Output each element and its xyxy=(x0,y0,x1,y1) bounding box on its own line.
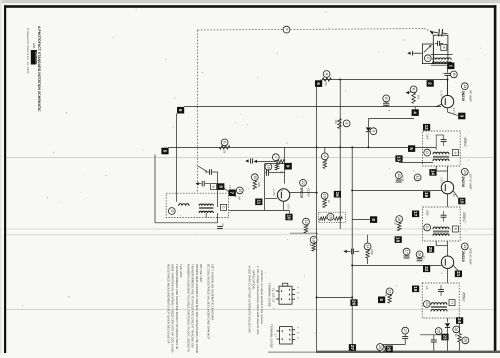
svg-text:24: 24 xyxy=(463,170,467,174)
svg-text:-1.2V: -1.2V xyxy=(440,90,444,97)
svg-text:b: b xyxy=(222,206,226,208)
svg-text:23: 23 xyxy=(443,334,448,340)
antenna boxref a xyxy=(441,44,447,50)
oscillator boxref b xyxy=(221,204,227,210)
fold line 1 xyxy=(6,156,494,158)
svg-text:11: 11 xyxy=(397,173,401,177)
svg-text:19: 19 xyxy=(323,194,327,198)
circuitrace square 7 xyxy=(229,190,236,197)
svg-text:-1.4V: -1.4V xyxy=(439,177,443,183)
oscillator coil box dashed xyxy=(166,193,228,217)
svg-text:POWER REPLACEMENT AND MAY NOT: POWER REPLACEMENT AND MAY NOT NECESSARIL… xyxy=(195,264,199,353)
circuitrace square 13 xyxy=(395,155,402,162)
circuitrace square 26 xyxy=(350,299,357,306)
notes text block xyxy=(166,264,264,354)
terminal guide 1 label xyxy=(267,283,275,307)
circled 14 resistor 220k xyxy=(364,235,374,264)
circuitrace square 10 xyxy=(285,214,292,221)
fold line 2 xyxy=(6,228,494,230)
wire box bottom y223 xyxy=(155,222,218,224)
circuitrace square 6 xyxy=(177,107,184,114)
svg-text:5: 5 xyxy=(163,150,168,153)
svg-text:4: 4 xyxy=(274,156,278,158)
svg-text:-.02V: -.02V xyxy=(286,203,290,209)
antenna trimmer arrow xyxy=(424,45,432,52)
detector diode xyxy=(445,323,450,335)
svg-text:18: 18 xyxy=(418,252,422,256)
wire AVC bus y79 xyxy=(322,79,447,81)
svg-text:25: 25 xyxy=(437,329,441,333)
svg-text:G: G xyxy=(170,210,174,213)
svg-text:● SEE PARTS LIST FOR ALTERNATE: ● SEE PARTS LIST FOR ALTERNATE VALUES OR xyxy=(247,266,251,333)
svg-text:17: 17 xyxy=(405,250,409,254)
IF2 label xyxy=(426,210,430,215)
svg-text:RESISTANCE MEASUREMENTS NOT GI: RESISTANCE MEASUREMENTS NOT GIVEN BECAUS… xyxy=(166,264,170,344)
svg-text:-9.4V: -9.4V xyxy=(452,107,456,114)
svg-text:455KC: 455KC xyxy=(463,137,467,147)
svg-text:2N218: 2N218 xyxy=(461,176,465,187)
capacitor with circled B2 xyxy=(383,95,391,112)
IF3 box dashed xyxy=(422,283,459,318)
svg-text:3N219: 3N219 xyxy=(461,91,465,102)
tuning capacitor C1A plates xyxy=(439,29,448,36)
IF3 core lines xyxy=(431,307,447,308)
svg-text:H: H xyxy=(450,301,454,304)
svg-text:® Howard W. Sams & Co., Inc. 1: ® Howard W. Sams & Co., Inc. 1960 xyxy=(26,28,30,74)
circuitrace square 16b xyxy=(334,191,341,198)
svg-text:20: 20 xyxy=(428,247,433,253)
svg-text:C2, L5A, C3: C2, L5A, C3 xyxy=(272,288,276,303)
circled 25 xyxy=(435,328,442,335)
volume control wire xyxy=(420,335,448,351)
fold line 3 xyxy=(6,234,494,236)
svg-text:21: 21 xyxy=(425,302,429,306)
IF1 capacitor xyxy=(441,135,447,146)
IF1 boxref xyxy=(452,150,458,156)
svg-text:12: 12 xyxy=(304,220,308,224)
svg-text:16: 16 xyxy=(335,192,340,198)
svg-text:13: 13 xyxy=(312,238,316,242)
svg-text:L6: L6 xyxy=(425,286,429,290)
IF1 455KC label xyxy=(463,137,467,147)
circuitrace square 27 xyxy=(349,344,356,351)
gang link dashed slope xyxy=(424,29,433,32)
fold dark segment xyxy=(290,232,318,234)
IF1 wire top xyxy=(436,108,447,150)
IF2 coil row2 xyxy=(433,234,449,236)
circuitrace square 21 xyxy=(455,271,462,278)
IF3 label xyxy=(425,286,429,290)
svg-text:15: 15 xyxy=(253,175,257,179)
svg-text:13: 13 xyxy=(397,156,402,162)
circled 27 capacitor xyxy=(402,327,409,344)
svg-text:56: 56 xyxy=(222,150,226,154)
svg-text:9: 9 xyxy=(286,165,291,168)
circuitrace square 5c xyxy=(378,297,385,304)
terminal guide 2 xyxy=(277,327,298,344)
external antenna lead xyxy=(407,51,422,56)
svg-text:15: 15 xyxy=(238,188,242,192)
diode with circled 9 xyxy=(366,127,377,147)
circled 10 cluster box xyxy=(265,147,285,210)
junction x352 y147 xyxy=(351,146,353,148)
transistor 1st IF amp xyxy=(441,181,458,207)
svg-text:TRANSFORMERS AND SHUNTING EFFE: TRANSFORMERS AND SHUNTING EFFECT OF RESI… xyxy=(175,264,179,349)
2nd IF designation xyxy=(461,243,472,265)
junction y147 x340 xyxy=(339,146,341,148)
diagonal wire xyxy=(198,166,207,171)
svg-text:5: 5 xyxy=(379,299,384,302)
svg-text:17: 17 xyxy=(413,211,418,217)
bottom scan smear dark xyxy=(316,351,500,353)
terminal guide 1 xyxy=(276,283,298,304)
IF3 coil row1 xyxy=(431,303,447,305)
junction y147 x316 xyxy=(316,146,318,148)
svg-text:TERMINAL GUIDE: TERMINAL GUIDE xyxy=(267,283,271,307)
boxref a2 xyxy=(211,184,217,190)
svg-text:.02: .02 xyxy=(422,255,425,259)
svg-text:28: 28 xyxy=(463,338,467,342)
svg-text:26: 26 xyxy=(454,327,458,331)
circled 15 resistor 100k xyxy=(251,174,261,189)
svg-text:9: 9 xyxy=(371,130,375,132)
fold line 4 xyxy=(6,309,494,311)
capacitor top left xyxy=(205,169,218,207)
IF2 capacitor xyxy=(441,211,447,222)
RF amp voltage labels xyxy=(440,90,456,113)
wire y118.5 to diode xyxy=(368,119,414,127)
resistor 1k right xyxy=(454,324,469,351)
IF1 label L5A xyxy=(426,134,430,139)
capacitor arrow top xyxy=(245,158,257,163)
circled 30 xyxy=(378,345,385,352)
svg-text:with: with xyxy=(32,43,36,49)
svg-text:LEFT SHOWN ON SCHEMATIC DIAGRA: LEFT SHOWN ON SCHEMATIC DIAGRAM. xyxy=(211,264,215,321)
svg-text:1: 1 xyxy=(448,65,453,68)
oscillator circled G xyxy=(168,208,175,215)
svg-text:27: 27 xyxy=(403,329,407,333)
circled 23 resistor 47k xyxy=(384,288,393,303)
1st IF designation xyxy=(461,168,472,189)
circuitrace square 11 xyxy=(255,199,262,206)
wire mixer base xyxy=(265,197,278,199)
border frame right xyxy=(494,5,497,353)
dashed box resistors xyxy=(319,217,342,221)
dashed box circled 20 xyxy=(327,213,334,220)
svg-text:10: 10 xyxy=(266,165,270,169)
circuitrace square 18 xyxy=(395,236,402,243)
wire base T2 xyxy=(351,189,441,191)
circled 12 resistor xyxy=(303,218,310,233)
wire y162 into IF1 xyxy=(399,161,433,163)
loopstick core line xyxy=(431,54,453,65)
svg-text:4: 4 xyxy=(413,111,418,114)
svg-text:455KC: 455KC xyxy=(462,212,466,222)
circuitrace square 16 xyxy=(423,191,430,198)
svg-text:1-15: 1-15 xyxy=(401,176,404,182)
loopstick coil L1 row1 xyxy=(433,58,451,60)
tuning capacitor C1A arrow xyxy=(430,31,439,35)
svg-text:14: 14 xyxy=(463,244,467,248)
tap arrow with resistor cluster xyxy=(254,154,285,163)
svg-text:19: 19 xyxy=(413,286,418,292)
scan edge left xyxy=(0,0,2,353)
svg-text:14: 14 xyxy=(366,244,370,248)
svg-text:-1.25V: -1.25V xyxy=(272,188,276,196)
circuitrace square 19 xyxy=(412,286,419,293)
svg-text:26: 26 xyxy=(352,300,357,306)
wire IF3 to detector xyxy=(447,318,449,322)
svg-text:THE UNIT.: THE UNIT. xyxy=(179,264,183,278)
capacitor below osc box xyxy=(217,224,225,229)
svg-text:8: 8 xyxy=(218,185,223,188)
svg-text:3N219: 3N219 xyxy=(300,187,304,198)
circuitrace square 30 xyxy=(386,346,393,353)
junction antenna bus xyxy=(447,79,449,81)
svg-text:8: 8 xyxy=(345,122,349,124)
oscillator coil row1 xyxy=(199,204,213,206)
main vertical bus x316 xyxy=(316,87,318,351)
circuitrace square 15 xyxy=(458,198,465,205)
border frame top xyxy=(4,5,496,8)
svg-text:455KC: 455KC xyxy=(461,292,465,302)
IF2 circled D2 xyxy=(424,224,431,231)
diagonal pointer xyxy=(223,185,236,197)
transistor RF amp xyxy=(436,80,458,116)
circuitrace square 3 xyxy=(458,113,465,120)
svg-text:voltmeter; no signal applied t: voltmeter; no signal applied to the rece… xyxy=(260,270,264,325)
capacitor arrow mid xyxy=(343,249,359,255)
wire collector bus y210 xyxy=(229,210,290,213)
svg-text:D: D xyxy=(425,226,429,229)
svg-text:24: 24 xyxy=(457,318,462,324)
scan edge top xyxy=(0,0,500,3)
circuitrace square 22 xyxy=(423,266,430,273)
IF1 secondary leads xyxy=(436,166,447,181)
circled 29 xyxy=(377,344,384,351)
circuitrace square 23 xyxy=(441,334,448,341)
wire cap B to bus xyxy=(447,76,449,96)
IF1 box dashed xyxy=(423,131,461,166)
svg-text:25: 25 xyxy=(387,346,392,352)
RF amp designation xyxy=(461,83,472,102)
svg-text:5: 5 xyxy=(409,147,414,150)
IF2 boxref xyxy=(452,226,458,232)
IF2 secondary leads xyxy=(436,241,447,256)
circuitrace square 12 xyxy=(423,124,430,131)
svg-text:-9V: -9V xyxy=(452,193,456,197)
circuitrace square 1 xyxy=(447,63,454,70)
svg-text:8: 8 xyxy=(371,218,376,221)
IF3 coil row2 xyxy=(431,309,447,311)
circuitrace black box xyxy=(31,50,39,71)
IF2 box dashed xyxy=(423,207,461,241)
svg-text:100k: 100k xyxy=(257,181,261,187)
svg-text:TERMINAL GUIDE: TERMINAL GUIDE xyxy=(269,324,273,348)
circled 18 capacitor xyxy=(416,251,425,261)
antenna box cap C2 xyxy=(435,41,443,46)
capacitor 30 xyxy=(431,335,437,351)
antenna trimmer box xyxy=(422,44,433,64)
circuitrace square 14 xyxy=(429,169,436,176)
IF1 circled D xyxy=(424,149,431,156)
antenna circled C xyxy=(424,55,431,62)
circuitrace square 20 xyxy=(427,246,434,253)
circled 11 capacitor xyxy=(395,162,404,182)
svg-text:56: 56 xyxy=(324,82,328,86)
svg-text:2N218: 2N218 xyxy=(461,251,465,262)
circuitrace square 5a xyxy=(315,80,322,87)
svg-text:10k: 10k xyxy=(416,95,420,100)
svg-text:CONV: CONV xyxy=(307,188,311,198)
circled E with resistor xyxy=(406,86,421,103)
photofact title text xyxy=(37,26,41,112)
vertical wire x177 xyxy=(176,113,178,201)
vertical bus x352 xyxy=(351,147,353,350)
border frame left xyxy=(4,5,6,353)
svg-text:b: b xyxy=(453,228,457,230)
circled 19 resistor 1k xyxy=(321,192,331,207)
wire bus y147 xyxy=(168,146,436,148)
IF3 455KC label xyxy=(461,292,465,302)
IF1 core lines xyxy=(433,156,449,157)
svg-text:18: 18 xyxy=(396,237,401,243)
svg-text:D: D xyxy=(425,151,429,154)
oscillator coil small xyxy=(179,204,189,206)
antenna box outer xyxy=(433,35,448,63)
circled 17 capacitor xyxy=(403,248,410,258)
svg-text:15: 15 xyxy=(459,198,464,204)
svg-text:NUMBERS ASSIGNED TO COILS, SWI: NUMBERS ASSIGNED TO COILS, SWITCHES, PLU… xyxy=(186,264,190,352)
svg-text:2ND IF AMP: 2ND IF AMP xyxy=(469,248,473,265)
photofact copyright text xyxy=(26,28,30,74)
svg-text:L5B: L5B xyxy=(426,210,430,215)
svg-text:13: 13 xyxy=(463,84,467,88)
svg-text:CIRCUITRACE: CIRCUITRACE xyxy=(35,51,39,70)
svg-text:47k: 47k xyxy=(384,292,388,297)
circled 12b xyxy=(414,174,421,181)
base bus y106.5 xyxy=(184,106,441,108)
svg-text:21: 21 xyxy=(456,271,461,277)
svg-text:C: C xyxy=(426,57,430,60)
transistor converter xyxy=(277,189,316,211)
circled A resistor 56 xyxy=(321,71,332,86)
svg-text:DC COIL RESISTANCE VALUES UNDE: DC COIL RESISTANCE VALUES UNDER ONE OHM … xyxy=(206,264,210,340)
bottom scan smear light xyxy=(268,351,316,353)
junction y147 x368 xyxy=(367,146,369,148)
svg-text:4.5: 4.5 xyxy=(228,185,231,189)
transistor 2nd IF amp xyxy=(441,256,458,283)
svg-text:L5A: L5A xyxy=(426,134,430,139)
gang link dashed horizontal xyxy=(198,29,424,30)
svg-text:5: 5 xyxy=(316,82,321,85)
svg-text:16: 16 xyxy=(397,217,401,221)
1st IF voltage labels xyxy=(439,177,455,198)
IF2 coil row1 xyxy=(433,227,449,229)
IF2 core lines xyxy=(433,231,449,232)
arrow bottom left xyxy=(377,343,405,346)
circled 16 resistor xyxy=(393,216,402,231)
IF3 boxref H xyxy=(449,300,455,306)
svg-text:2.2k: 2.2k xyxy=(393,220,397,226)
circuitrace square 17 xyxy=(412,211,419,218)
svg-text:3: 3 xyxy=(459,115,464,118)
svg-text:1ST IF AMP: 1ST IF AMP xyxy=(469,173,473,189)
svg-text:29: 29 xyxy=(378,345,382,349)
circuitrace square 8 xyxy=(217,183,224,190)
resistor 10k with circled 8 xyxy=(334,119,350,129)
dashed trimmer box xyxy=(318,212,345,222)
junction mixer emitter xyxy=(316,192,318,194)
svg-text:1. DC voltage measurements ta: 1. DC voltage measurements taken with va… xyxy=(256,266,260,335)
svg-text:23: 23 xyxy=(388,289,392,293)
svg-text:27: 27 xyxy=(350,345,355,351)
circled 15b xyxy=(236,187,243,200)
svg-text:10: 10 xyxy=(287,214,292,220)
svg-text:APPLICATION.: APPLICATION. xyxy=(252,270,256,290)
converter designation xyxy=(300,179,311,198)
photofact with text xyxy=(32,43,36,49)
vertical wire x157 xyxy=(154,154,156,222)
capacitor with arrow y183 xyxy=(195,181,209,187)
vertical bus x340 xyxy=(339,80,341,230)
oscillator core lines xyxy=(199,208,213,209)
capacitor C3 with circled B xyxy=(442,71,458,78)
svg-text:14: 14 xyxy=(431,170,436,176)
circuitrace square 4 xyxy=(412,107,419,116)
IF2 455KC label xyxy=(462,212,466,222)
IF3 capacitor xyxy=(438,285,444,296)
circuitrace square 24 xyxy=(456,317,463,324)
svg-text:22: 22 xyxy=(424,266,429,272)
circled E2 resistor in line xyxy=(219,139,230,154)
oscillator coil row2 xyxy=(199,211,213,213)
wire antenna to cap B xyxy=(447,67,449,72)
circuitrace square 5 xyxy=(161,147,168,154)
terminal guide 2 label xyxy=(269,324,277,348)
svg-text:16: 16 xyxy=(424,192,429,198)
IF1 coil row2 xyxy=(433,159,449,161)
svg-text:220k: 220k xyxy=(370,249,374,255)
gang link circled F xyxy=(283,26,290,33)
svg-text:20: 20 xyxy=(328,215,332,219)
svg-text:10k: 10k xyxy=(334,119,338,124)
oscillator lead down xyxy=(206,213,217,223)
junction x340 y79 xyxy=(339,79,341,81)
IF3 circled 21 xyxy=(423,301,430,308)
svg-text:12: 12 xyxy=(424,125,429,131)
wire y297 between buses xyxy=(316,296,354,298)
svg-text:2: 2 xyxy=(428,82,433,85)
svg-text:ON THE UNIT.: ON THE UNIT. xyxy=(199,264,203,283)
converter voltage labels xyxy=(272,188,290,209)
svg-text:12: 12 xyxy=(416,175,420,179)
loopstick coil L1 row2 xyxy=(432,62,452,64)
circled A3 with resistor xyxy=(321,147,328,168)
circuitrace square 8b xyxy=(352,216,377,223)
circuitrace square 2 xyxy=(427,80,434,87)
svg-text:11: 11 xyxy=(256,199,261,204)
svg-text:7: 7 xyxy=(230,192,235,195)
circuitrace square 9 xyxy=(285,163,292,170)
svg-text:WIDE VARIATION IN INTERNAL TUN: WIDE VARIATION IN INTERNAL TUNED CIRCUIT… xyxy=(171,264,175,352)
circuitrace square 5b xyxy=(408,145,415,152)
wire base T3 xyxy=(351,264,441,266)
svg-text:6: 6 xyxy=(178,109,183,112)
circled 13 resistor xyxy=(308,236,317,251)
gang link dashed vertical xyxy=(197,30,199,193)
svg-text:TRANSFORMERS ARE TO FACILITATE: TRANSFORMERS ARE TO FACILITATE CIRCUIT T… xyxy=(191,264,195,348)
